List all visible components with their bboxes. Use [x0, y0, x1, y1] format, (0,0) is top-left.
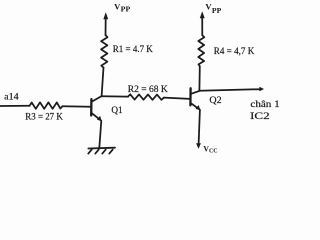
resistor R1: [101, 35, 107, 68]
svg-text:V: V: [205, 3, 211, 12]
resistor R2: [128, 94, 164, 100]
power Vpp left arrow: [103, 12, 108, 35]
wire R1 bottom to collector node: [102, 68, 104, 97]
power Vcc arrow down: [196, 143, 201, 149]
resistor R3: [30, 102, 63, 108]
svg-text:a14: a14: [4, 91, 19, 102]
svg-text:CC: CC: [209, 147, 218, 154]
resistor R4: [198, 35, 204, 66]
wire R4 to Q2 collector node: [198, 66, 200, 91]
svg-text:R3 = 27 K: R3 = 27 K: [25, 112, 63, 123]
label Vpp left: [114, 3, 131, 14]
wire Q1 emitter to ground: [99, 121, 101, 148]
wire output with arrow: [199, 87, 264, 92]
transistor Q1: [91, 96, 102, 121]
svg-text:R4 = 4,7 K: R4 = 4,7 K: [214, 46, 255, 57]
svg-text:PP: PP: [121, 6, 131, 14]
wire node to R2: [102, 95, 128, 97]
svg-text:R2 = 68 K: R2 = 68 K: [128, 84, 168, 95]
label Vpp right: [205, 3, 222, 15]
svg-text:R1 = 4.7 K: R1 = 4.7 K: [113, 44, 153, 55]
svg-text:Q1: Q1: [111, 105, 122, 116]
label Vcc: [203, 144, 217, 154]
svg-text:V: V: [114, 3, 120, 12]
wire R2 to Q2 base: [164, 98, 190, 99]
svg-text:Q2: Q2: [209, 95, 221, 106]
svg-text:PP: PP: [212, 7, 222, 15]
svg-text:IC2: IC2: [250, 111, 270, 122]
svg-text:chân 1: chân 1: [250, 99, 280, 110]
power Vpp right arrow: [200, 11, 205, 35]
wire Q2 emitter to Vcc: [199, 110, 200, 145]
transistor Q2: [190, 88, 200, 110]
ground: [88, 148, 115, 154]
wire input a14: [0, 105, 30, 107]
wire R3 to Q1 base: [62, 105, 91, 108]
